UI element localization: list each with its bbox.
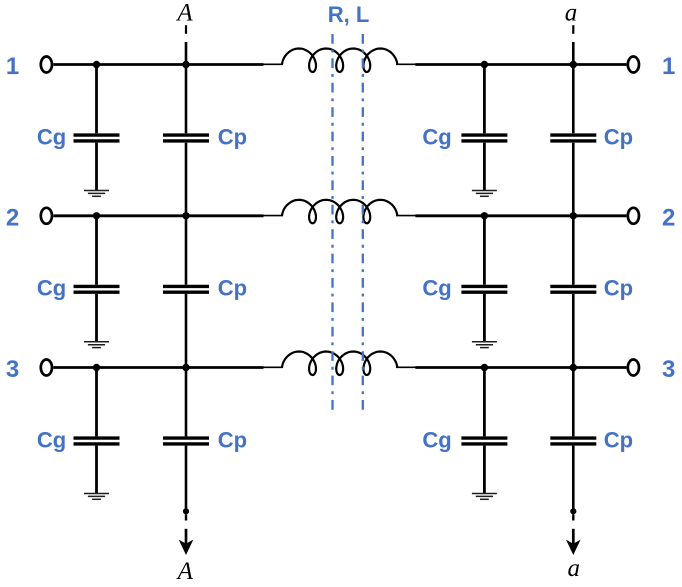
boundary marker line (right, dash-dot) — [362, 34, 364, 410]
svg-text:Cp: Cp — [218, 124, 247, 149]
bus a dashed lead (top) — [572, 25, 574, 34]
wire bus A vertical segment 2 — [185, 143, 188, 285]
capacitor Cg (row 1, right) plates — [461, 135, 507, 141]
svg-text:Cg: Cg — [37, 427, 66, 452]
wire bus a vertical segment 4 — [572, 446, 575, 512]
capacitor Cp (row 3, left, on bus A) plates — [163, 438, 209, 444]
junction dot row 2 / bus a — [570, 212, 577, 219]
wire bus a vertical segment 3 — [572, 294, 575, 437]
svg-text:3: 3 — [662, 356, 675, 383]
ground (row 2, left) — [84, 342, 109, 348]
capacitor Cg (row 2, right): lead to ground — [483, 294, 486, 342]
junction dot row 3 / bus a — [570, 364, 577, 371]
capacitor Cg (row 1, left): lead to ground — [95, 143, 98, 191]
svg-text:Cp: Cp — [218, 427, 247, 452]
ground (row 2, right) — [472, 342, 497, 348]
svg-text:a: a — [568, 555, 581, 582]
serif foot of left '1' label — [8, 72, 17, 74]
terminal 1 (right) — [628, 57, 639, 73]
wire bus A vertical segment 3 — [185, 294, 188, 437]
capacitor Cp (row 1, left, on bus A) plates — [163, 135, 209, 141]
wire row 2: left terminal to inductor — [53, 214, 263, 217]
arrow bus A (neutral lead) — [179, 529, 194, 555]
capacitor Cg (row 2, left): lead to ground — [95, 294, 98, 342]
svg-text:Cg: Cg — [422, 276, 451, 301]
junction dot row 3 / right Cg bus — [481, 364, 488, 371]
junction dot row 3 / left Cg bus — [93, 364, 100, 371]
boundary marker line (left, dash-dot) — [331, 34, 333, 410]
junction dot bus a (bottom) — [570, 508, 576, 514]
wire bus a vertical segment 1 — [572, 42, 575, 133]
wire bus A bottom stub — [185, 514, 187, 520]
capacitor Cg (row 1, right): lead to ground — [483, 143, 486, 191]
wire row 1: inductor to right terminal — [415, 63, 626, 66]
capacitor Cp (row 1, right, on bus a) plates — [550, 135, 596, 141]
svg-text:3: 3 — [6, 356, 19, 383]
terminal 2 (left) — [41, 208, 52, 224]
capacitor Cp (row 3, right, on bus a) plates — [550, 438, 596, 444]
ground (row 1, right) — [472, 191, 497, 197]
junction dot row 2 / right Cg bus — [481, 212, 488, 219]
terminal 1 (left) — [41, 57, 52, 73]
wire row 3: left terminal to inductor — [53, 366, 263, 369]
ground (row 1, left) — [84, 191, 109, 197]
terminal 3 (right) — [628, 360, 639, 376]
svg-text:2: 2 — [662, 204, 675, 231]
inductor R,L row 2 — [262, 200, 418, 224]
svg-text:1: 1 — [6, 53, 19, 80]
capacitor Cp (row 2, right, on bus a) plates — [550, 286, 596, 292]
svg-text:Cp: Cp — [218, 276, 247, 301]
wire row 2: inductor to right terminal — [415, 214, 626, 217]
svg-text:Cg: Cg — [37, 124, 66, 149]
svg-text:Cg: Cg — [422, 427, 451, 452]
wire bus A vertical segment 4 — [185, 446, 188, 512]
junction dot row 1 / left Cg bus — [93, 61, 100, 68]
capacitor Cg (row 3, left): lead to ground — [95, 446, 98, 494]
svg-text:Cg: Cg — [422, 124, 451, 149]
bus A dashed lead (top) — [185, 25, 187, 34]
junction dot bus A (bottom) — [183, 508, 189, 514]
capacitor Cg (row 2, right) plates — [461, 286, 507, 292]
wire row 3: inductor to right terminal — [415, 366, 626, 369]
junction dot row 1 / right Cg bus — [481, 61, 488, 68]
svg-text:A: A — [175, 0, 193, 26]
arrow bus a (neutral lead) — [566, 529, 581, 555]
svg-text:1: 1 — [662, 53, 675, 80]
capacitor Cp (row 2, left, on bus A) plates — [163, 286, 209, 292]
wire bus a bottom stub — [572, 514, 574, 520]
wire bus A vertical segment 1 — [185, 42, 188, 133]
capacitor Cg (row 3, right) plates — [461, 438, 507, 444]
capacitor Cg (row 2, left) plates — [74, 286, 120, 292]
wire row 1: left terminal to inductor — [53, 63, 263, 66]
capacitor Cg (row 3, right): lead to ground — [483, 446, 486, 494]
capacitor Cg (row 1, left) plates — [74, 135, 120, 141]
capacitor Cg (row 2, right): lead from wire — [483, 216, 486, 285]
svg-text:Cp: Cp — [604, 427, 633, 452]
terminal 3 (left) — [41, 360, 52, 376]
capacitor Cg (row 2, left): lead from wire — [95, 216, 98, 285]
junction dot row 3 / bus A — [182, 364, 189, 371]
junction dot row 1 / bus a — [570, 61, 577, 68]
svg-text:Cg: Cg — [37, 276, 66, 301]
ground (row 3, left) — [84, 494, 109, 500]
svg-text:Cp: Cp — [604, 276, 633, 301]
svg-text:R, L: R, L — [328, 2, 370, 27]
serif foot of right '1' label — [664, 72, 673, 74]
capacitor Cg (row 1, left): lead from wire — [95, 65, 98, 134]
capacitor Cg (row 3, right): lead from wire — [483, 368, 486, 437]
inductor R,L row 1 — [262, 49, 418, 73]
junction dot row 2 / bus A — [182, 212, 189, 219]
svg-text:2: 2 — [6, 204, 19, 231]
ground (row 3, right) — [472, 494, 497, 500]
svg-text:a: a — [565, 0, 578, 26]
svg-text:A: A — [176, 558, 194, 585]
wire bus a vertical segment 2 — [572, 143, 575, 285]
terminal 2 (right) — [628, 208, 639, 224]
capacitor Cg (row 1, right): lead from wire — [483, 65, 486, 134]
inductor R,L row 3 — [262, 352, 418, 376]
junction dot row 2 / left Cg bus — [93, 212, 100, 219]
capacitor Cg (row 3, left): lead from wire — [95, 368, 98, 437]
junction dot row 1 / bus A — [182, 61, 189, 68]
capacitor Cg (row 3, left) plates — [74, 438, 120, 444]
svg-text:Cp: Cp — [604, 124, 633, 149]
